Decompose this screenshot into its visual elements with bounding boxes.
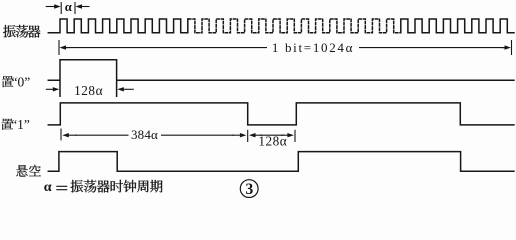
svg-text:128α: 128α	[74, 83, 103, 98]
svg-text:α: α	[44, 180, 52, 195]
dimension 128a (set-zero)	[46, 88, 54, 90]
figure number circled 3	[240, 180, 258, 198]
svg-text:α: α	[65, 0, 72, 14]
svg-text:1 bit=1024α: 1 bit=1024α	[272, 40, 354, 55]
dimension 384a	[68, 134, 77, 136]
svg-text:128α: 128α	[258, 134, 287, 149]
dimension 1 bit = 1024a	[59, 40, 512, 55]
label floating	[16, 165, 40, 177]
oscillator waveform	[48, 19, 188, 33]
dimension ticks (set-one row)	[61, 129, 295, 143]
dimension alpha (one clock period)	[61, 3, 75, 14]
waveform floating	[48, 152, 514, 172]
waveform set-one	[48, 103, 514, 125]
dimension 128a (set-one)	[255, 134, 263, 136]
svg-text:3: 3	[246, 181, 254, 198]
svg-text:“1”: “1”	[11, 117, 30, 132]
label set-zero	[2, 76, 13, 87]
svg-text:“0”: “0”	[12, 75, 31, 90]
label set-one	[2, 119, 13, 130]
waveform set-zero	[48, 60, 514, 96]
svg-text:384α: 384α	[131, 127, 158, 142]
label oscillator	[3, 25, 40, 38]
